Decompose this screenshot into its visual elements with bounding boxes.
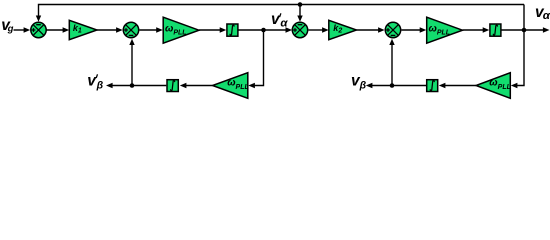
node vb [390, 83, 395, 88]
wire: k1 to sum2 [97, 29, 117, 31]
wire: input vg to sum1 [14, 29, 26, 31]
wire: sum2 to wpll1 gain [140, 29, 158, 31]
integrator int1 [227, 24, 238, 36]
wire: wpll1 to integrator1 [199, 29, 221, 31]
wire: integrator2 to output va [502, 29, 544, 31]
summing junction sum2 [123, 22, 138, 37]
gain k1 [69, 20, 97, 39]
wire: vb node up into sum4 [391, 45, 393, 86]
node va output [522, 28, 527, 33]
wire: bottom-left wpll to integrator [186, 85, 213, 87]
integrator int4 (bottom right) [427, 80, 438, 92]
gain wpll4 (bottom right, mirrored) [476, 73, 510, 99]
wire: top feedback line from output node to sum1 [39, 5, 525, 17]
integrator int3 (bottom left) [167, 80, 178, 92]
svg-text:β: β [96, 80, 104, 92]
wire: sum4 to wpll2 gain [402, 29, 421, 31]
gain k2 [329, 20, 357, 39]
wire: v'b node up into sum2 [131, 45, 133, 86]
gain wpll1 [163, 17, 199, 43]
summing junction sum1 [31, 22, 46, 37]
svg-text:β: β [359, 80, 367, 92]
node v'b [130, 83, 135, 88]
wire: k2 to sum4 [357, 29, 380, 31]
wire: v'a node down to bottom-left path [254, 30, 264, 86]
svg-text:α: α [280, 18, 288, 30]
wire: wpll2 to integrator2 [463, 29, 484, 31]
svg-text:α: α [543, 10, 550, 22]
wire: va node vertical up to top line and down to bottom-right path [516, 5, 524, 86]
summing junction sum3 [292, 22, 307, 37]
integrator int2 [490, 24, 501, 36]
wire: drop from top line into sum3 [299, 5, 301, 17]
node A: top-line branch dot above sum3 [298, 2, 303, 7]
gain wpll2 [427, 17, 463, 43]
node v'a [261, 28, 266, 33]
svg-text:g: g [7, 24, 14, 35]
wire: bottom-right integrator to vb label, with node [372, 85, 427, 87]
wire: bottom-left integrator to v'b label, with node [112, 85, 166, 87]
wire: sum1 to k1 [47, 29, 64, 31]
wire: bottom-right wpll to integrator [445, 85, 477, 87]
wire: sum3 to k2 [309, 29, 324, 31]
gain wpll3 (bottom left, mirrored) [213, 73, 248, 99]
summing junction sum4 [385, 22, 400, 37]
wire: integrator1 to sum3, with v'a node [239, 29, 287, 31]
